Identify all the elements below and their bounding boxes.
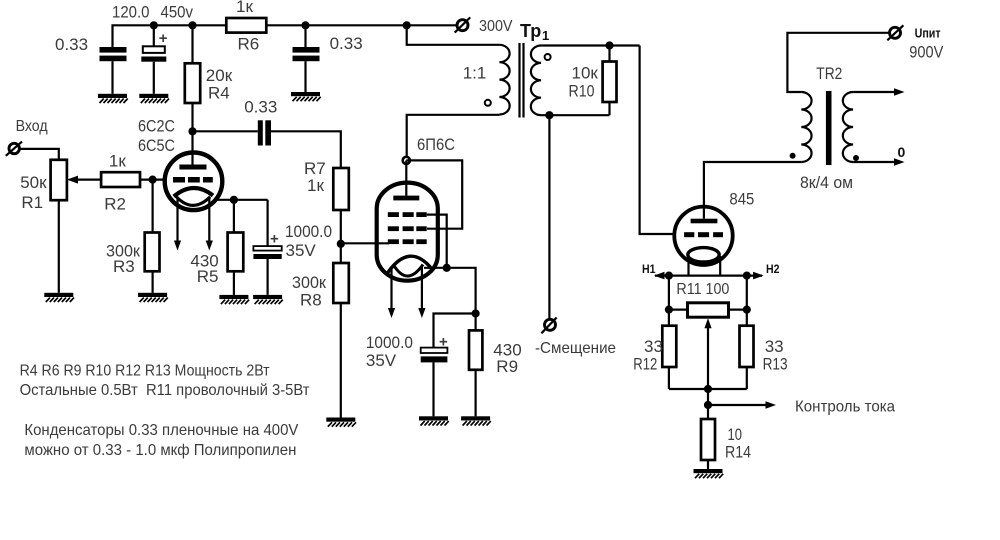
wire R14 to ground [707, 460, 709, 469]
wire to R9 [475, 314, 477, 331]
node junction dot [150, 21, 158, 29]
svg-text:Вход: Вход [16, 118, 49, 135]
wire to C6 [434, 314, 476, 348]
wire to electrolytic 120.0 [153, 25, 155, 46]
svg-text:можно от 0.33 - 1.0 мкф Полипр: можно от 0.33 - 1.0 мкф Полипропилен [24, 442, 296, 459]
wire R1 to ground [58, 200, 60, 293]
wiper arrow into R1 [67, 176, 101, 184]
svg-text:8к/4 ом: 8к/4 ом [800, 173, 853, 192]
svg-text:1000.0: 1000.0 [366, 333, 413, 352]
node junction dot cathode2 [472, 309, 480, 317]
svg-text:+: + [270, 231, 279, 248]
svg-text:R10: R10 [569, 82, 595, 101]
ground [461, 416, 491, 425]
svg-text:R6: R6 [238, 35, 260, 54]
ground [139, 94, 169, 103]
svg-text:R3: R3 [113, 257, 135, 276]
svg-text:R2: R2 [104, 195, 126, 214]
wire cap3 to ground [304, 61, 306, 92]
filament ellipse V3 [688, 248, 719, 262]
capacitor C 0.33 (after R6) [293, 47, 320, 61]
wire input to R1 [20, 149, 59, 160]
ground [326, 418, 356, 427]
svg-text:1: 1 [542, 28, 549, 43]
wire grid feed 845 [640, 46, 676, 235]
resistor R8 [333, 263, 349, 303]
svg-text:Uпит: Uпит [915, 27, 941, 41]
wire secondary bottom [541, 114, 609, 116]
node junction dot beam strap [443, 264, 451, 272]
svg-text:+: + [439, 334, 448, 351]
wire R13 bottom [746, 367, 748, 389]
svg-text:6С5С: 6С5С [138, 136, 175, 155]
resistor R10 [603, 62, 617, 103]
wire cap2 to ground [153, 62, 155, 94]
resistor R5 [228, 233, 244, 272]
ground [98, 94, 128, 103]
node junction dot Tr1 branch [403, 21, 411, 29]
svg-text:450v: 450v [161, 3, 194, 22]
ground [419, 416, 449, 425]
svg-text:R4: R4 [208, 84, 230, 103]
tube V2 6П6С envelope [377, 183, 438, 281]
svg-text:-Смещение: -Смещение [535, 340, 616, 357]
arrow Контроль тока [708, 401, 776, 409]
wire C5 to ground [267, 259, 269, 295]
node junction dot right [743, 272, 751, 280]
svg-text:R12: R12 [633, 355, 657, 374]
svg-text:6П6С: 6П6С [417, 135, 455, 154]
tube V3 845 envelope [674, 207, 732, 265]
svg-text:35V: 35V [286, 241, 317, 260]
beam plate strap wire [427, 215, 447, 268]
ground [291, 92, 321, 101]
capacitor 1000.0 35V electrolytic [253, 246, 281, 259]
wire bottom rail [669, 388, 747, 390]
node junction dot R10 top [605, 41, 613, 49]
wire to R3 [152, 180, 154, 233]
arrow H1 [654, 272, 665, 280]
svg-text:Контроль тока: Контроль тока [795, 399, 895, 416]
node junction dot sense [704, 401, 712, 409]
wire grid node to V2 grid [341, 242, 389, 244]
filament leg [687, 256, 689, 276]
node junction dot R11 left [665, 306, 673, 314]
capacitor 1000.0 35V electrolytic second [421, 348, 448, 363]
svg-text:R13: R13 [763, 355, 788, 374]
arrow H2 [753, 272, 764, 280]
wire R12 bottom [668, 367, 670, 389]
wire Tr1 primary bottom to anode pin [407, 115, 500, 161]
resistor R3 [145, 233, 160, 272]
filament rail H1 H2 [655, 275, 762, 277]
wire secondary top output arrow [853, 88, 904, 96]
anode pin V2 [405, 160, 407, 195]
ground [253, 295, 283, 304]
svg-text:R4 R6 R9 R10 R12 R13 Мощность: R4 R6 R9 R10 R12 R13 Мощность 2Вт [20, 363, 271, 380]
cathode arc V1 [174, 188, 213, 197]
resistor R9 [469, 330, 482, 369]
node junction dot R4 tap [188, 21, 196, 29]
svg-text:35V: 35V [366, 351, 397, 370]
svg-text:6С2С: 6С2С [138, 117, 175, 136]
wire to C5 [267, 200, 269, 246]
transformer TR2 core bar [826, 91, 832, 165]
wire cap1 to ground [111, 61, 113, 94]
svg-text:TR2: TR2 [816, 64, 842, 83]
anode bar V1 [179, 165, 206, 170]
transformer TR2 primary winding [801, 92, 811, 162]
anode bar V2 [393, 196, 419, 201]
wire secondary bottom output arrow [853, 158, 904, 166]
svg-text:0: 0 [898, 144, 906, 160]
grid dashes row1 V2 [388, 212, 427, 217]
wire cathode V2 to node [424, 268, 476, 314]
svg-text:1:1: 1:1 [463, 64, 487, 83]
phasing dot secondary Tr1 [545, 54, 551, 60]
wire to cap3 [304, 25, 306, 47]
svg-text:0.33: 0.33 [55, 35, 88, 54]
ground [694, 469, 724, 478]
wire bias line [548, 115, 550, 319]
svg-text:20к: 20к [206, 66, 233, 85]
ground [138, 293, 168, 302]
svg-text:Н1: Н1 [642, 264, 656, 276]
svg-text:1к: 1к [109, 152, 126, 171]
resistor R4 [185, 63, 200, 103]
svg-text:Остальные 0.5Вт R11 проволочн: Остальные 0.5Вт R11 проволочный 3-5Вт [20, 382, 311, 399]
filament lead with arrow [174, 197, 181, 251]
node junction dot R3 tap [149, 176, 157, 184]
svg-text:+: + [159, 30, 168, 47]
node junction dot bias tap [545, 111, 553, 119]
wire top B+ rail left segment [113, 25, 227, 47]
wire to R13 [746, 310, 748, 326]
wire R10 top [608, 46, 610, 62]
node junction dot grid [337, 240, 345, 248]
node Uпит connector [887, 25, 903, 40]
node junction dot cap3 tap [301, 21, 309, 29]
svg-text:1000.0: 1000.0 [285, 222, 332, 241]
wire down to sense node [707, 389, 709, 419]
tube V1 6С2С envelope [165, 153, 223, 211]
wire R8 to ground [340, 303, 342, 418]
node 300V connector [455, 17, 471, 32]
phasing dot TR2 primary [790, 154, 795, 159]
svg-text:1к: 1к [236, 0, 253, 16]
svg-text:R9: R9 [496, 357, 518, 376]
resistor R14 [701, 419, 715, 460]
filament leg [719, 256, 721, 276]
ground [44, 293, 74, 302]
wire R5 to ground [233, 271, 235, 295]
svg-text:Тр: Тр [520, 21, 541, 41]
filament lead with arrow [388, 267, 395, 318]
capacitor C 0.33 (first filter cap) [100, 47, 127, 61]
wire left drop [669, 276, 688, 310]
svg-text:10к: 10к [572, 64, 599, 83]
wire coupling cap to R7 [271, 131, 341, 168]
wire right drop [729, 276, 747, 310]
capacitor 0.33 coupling [258, 120, 271, 145]
svg-text:33: 33 [644, 337, 663, 356]
svg-text:300V: 300V [479, 18, 513, 35]
filament lead with arrow [206, 197, 213, 251]
svg-text:120.0: 120.0 [112, 3, 150, 22]
svg-text:1к: 1к [307, 176, 324, 195]
svg-text:0.33: 0.33 [330, 34, 363, 53]
svg-text:Н2: Н2 [766, 264, 780, 276]
svg-text:50к: 50к [20, 173, 47, 192]
svg-text:R8: R8 [300, 291, 322, 310]
svg-text:10: 10 [728, 425, 743, 444]
grid dashes row2 V2 [388, 226, 427, 231]
wiper arrow R11 [704, 318, 711, 389]
grid dashes row3 V2 [388, 239, 427, 244]
wire rail to R4 [191, 25, 193, 63]
ground [219, 295, 249, 304]
resistor R11 [688, 303, 729, 317]
wire C6 to ground [432, 362, 434, 416]
wire R9 to ground [475, 370, 477, 417]
phasing dot TR2 secondary [854, 156, 859, 161]
node junction dot R11 right [743, 306, 751, 314]
svg-text:Конденсаторы 0.33 пленочные на: Конденсаторы 0.33 пленочные на 400V [24, 422, 298, 439]
grid dashes V1 [173, 177, 213, 183]
filament lead with arrow [418, 267, 425, 318]
transformer Tr1 secondary winding [531, 46, 541, 116]
node junction dot cathode [230, 196, 238, 204]
node junction dot coupling tap [188, 127, 196, 135]
svg-text:33: 33 [765, 337, 784, 356]
wire TR2 primary top to Uпит [787, 33, 889, 92]
heater arc V2 [393, 265, 423, 277]
svg-text:300к: 300к [292, 273, 327, 292]
svg-text:R5: R5 [197, 267, 219, 286]
node junction dot left [665, 272, 673, 280]
svg-text:R1: R1 [21, 193, 43, 212]
resistor R13 [740, 326, 754, 367]
wire to R12 [668, 310, 670, 326]
resistor R6 [226, 18, 266, 33]
svg-text:R11 100: R11 100 [676, 281, 729, 298]
node junction dot bottom center [704, 385, 712, 393]
node -Смещение connector [541, 318, 556, 334]
wire secondary top to grid feed [541, 44, 640, 46]
wire R10 bottom [608, 102, 610, 115]
wire rail to Tr1 primary [407, 25, 500, 45]
svg-text:900V: 900V [909, 43, 944, 62]
potentiometer R1 50к [51, 160, 67, 200]
cathode arc V2 [388, 256, 432, 272]
node junction dot anode pin [403, 157, 410, 164]
wire to R5 [233, 200, 235, 233]
wire R3 to ground [152, 271, 154, 293]
wire top B+ rail right segment [266, 24, 456, 26]
resistor R7 [333, 168, 349, 210]
wire R4 to tube anode [191, 103, 193, 165]
transformer Tr1 primary winding [499, 45, 509, 115]
capacitor 120.0 450v electrolytic [141, 46, 166, 61]
wire to coupling cap [193, 130, 258, 132]
phasing dot primary Tr1 [485, 100, 491, 106]
resistor R12 [662, 326, 676, 367]
wire R7 to grid node [340, 210, 342, 263]
transformer TR2 secondary winding [843, 92, 853, 162]
wire cathode to R5 and C5 [216, 199, 268, 201]
heater arc V1 [176, 197, 210, 206]
wire R2 to grid [140, 179, 165, 181]
grid dashes V3 [684, 232, 723, 237]
resistor R2 [101, 172, 140, 187]
svg-text:0.33: 0.33 [244, 98, 277, 117]
anode bar V3 [691, 219, 718, 224]
anode pin V3 wire to TR2 [704, 162, 801, 219]
svg-text:R14: R14 [725, 443, 751, 462]
transformer Tr1 core [520, 43, 524, 118]
screen strap wire [406, 160, 462, 228]
svg-text:845: 845 [729, 190, 754, 209]
